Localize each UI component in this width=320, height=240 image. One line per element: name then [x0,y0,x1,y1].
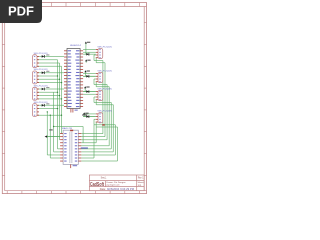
svg-text:MEGA8535-P: MEGA8535-P [70,44,82,47]
JP8 body [98,113,103,123]
SV1 body [63,130,78,164]
svg-text:psychogenic.com: psychogenic.com [107,184,120,186]
connector JP6 (SML-P12 4R) [96,70,112,82]
svg-text:PDF: PDF [8,3,34,18]
diode D4 [42,103,50,106]
connector JP2 (SML-P12 4R) [33,69,48,84]
U1 body [67,49,80,109]
JP1 pins [34,56,39,67]
JP4 pins [34,105,39,116]
connector JP5 (SML-P12 4R) [96,46,112,58]
label near U1 bottom [82,114,87,115]
wire: IC U1 to JP7 [83,92,96,100]
JP6 pins [96,73,101,82]
JP2 body [33,71,38,84]
+5V supply symbol P+5 [83,112,89,116]
wire: diode D8 net [83,116,96,118]
SV1 pin1 marker [70,130,73,132]
wire bus: right trunks staircase [81,55,117,161]
svg-text:Date:: Date: [100,188,106,191]
IC U1 microcontroller [64,44,83,113]
connector JP3 (SML-P12 4R) [33,86,48,101]
diode D7 [86,90,89,93]
diode D2 [42,71,50,74]
wire: left trunk (x47.3) [47,111,61,155]
VCC supply symbol [45,129,61,138]
SV1 bottom pin stub [71,164,77,168]
U1 bottom GND pins [71,109,78,113]
diode D6 [86,75,89,78]
JP8 pins [96,113,101,122]
wire bus: left trunk (x61.5) [37,66,62,133]
net label (blue) right of header [81,147,88,148]
svg-text:Sheet:: Sheet: [138,181,145,184]
wire: diode D5 net [83,53,96,55]
wire: diode D7 net [83,91,96,93]
JP5 body [98,48,103,58]
PDF badge overlay [0,0,42,23]
diode D3 [42,87,50,90]
connector SV1 dual-row header [60,127,81,168]
JP7 body [98,90,103,100]
JP6 body [98,72,103,82]
diode D8 [86,115,89,118]
SV1 pins [60,133,81,161]
svg-text:Sheet_1: Sheet_1 [101,177,107,180]
wire: IC U1 to JP8 [83,114,96,122]
U1 pins left [64,50,72,107]
wire: JP2 pin1 to IC U1 [37,72,64,74]
JP3 body [33,87,38,100]
JP7 pins [96,91,101,100]
wire: IC U1 to JP6 [83,74,96,82]
wire: left trunk (x50.3) [50,115,61,159]
wire: deep wraps to header lower rows [81,125,96,158]
JP1 body [33,55,38,68]
wire: IC U1 to JP5 [83,50,96,58]
JP3 pins [34,89,39,100]
diode D1 [42,55,50,58]
wire bus: left trunk (x57.5) [37,60,60,149]
JP2 pins [34,72,39,83]
wire: JP3 pin1 to IC U1 [37,88,64,90]
+5V supply symbol P+4 [84,86,90,91]
connector JP7 (SML-P12 4R) [96,88,112,100]
connector JP8 (SML-P12 4R) [96,111,112,123]
wire bus: left trunk (x59.5) [37,63,60,140]
JP4 body [33,104,38,117]
diode D5 [86,53,89,56]
connector JP1 (SML-P12 4R) [33,53,48,68]
svg-text:Rev: 1: Rev: 1 [138,177,144,180]
wire: diode D6 net [83,75,96,77]
+5V supply symbol P+3 [84,70,90,76]
wire: JP4 pin1 to IC U1 [37,104,64,106]
JP5 pins [96,49,101,58]
wire bus: left trunk (x53.6) with branch [53,92,83,152]
+5V supply symbol P+2 [85,59,91,62]
GND symbol under JP8 [102,124,105,125]
connector JP4 (SML-P12 4R) [33,102,48,117]
+5V supply symbol P+1 [85,42,91,55]
U1 pins right [75,50,83,107]
junction dots left bus [57,75,62,116]
wire: JP1 pin1 to IC U1 [37,55,64,57]
wire: VCC to header [47,136,60,138]
svg-text:9/26/2004 3:04:29 PM: 9/26/2004 3:04:29 PM [107,188,134,191]
